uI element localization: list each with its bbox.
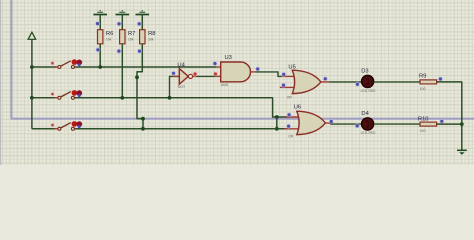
svg-text:U4: U4 <box>177 63 185 69</box>
svg-text:R8: R8 <box>148 31 155 37</box>
svg-text:10k: 10k <box>106 37 112 41</box>
resistor R8 <box>136 10 150 44</box>
node tie-row3 <box>275 127 279 131</box>
wire R6 lower pin <box>99 44 101 67</box>
power terminal +V <box>28 32 36 67</box>
state dot R9 right <box>438 77 443 82</box>
svg-text:R7: R7 <box>128 31 135 37</box>
state dot R6 top <box>95 21 100 26</box>
led D4 <box>361 111 377 135</box>
node bus-row2 <box>30 96 34 100</box>
svg-text:100: 100 <box>420 129 426 133</box>
resistor R7 <box>116 10 130 44</box>
or-gate U6 <box>288 105 325 139</box>
wire row2 right segment <box>74 98 290 117</box>
wire R8 lower pin (jogged) <box>137 44 143 129</box>
wire row1 right segment <box>74 66 216 68</box>
wire R9 to right bus <box>437 82 462 150</box>
or-gate U5 <box>287 64 321 99</box>
node R8 jog <box>141 117 145 121</box>
state dot U4 output <box>193 72 198 77</box>
wire U5 upper stub <box>281 75 298 77</box>
svg-text:D3: D3 <box>361 69 368 75</box>
wire U4 input from row2 <box>170 76 180 97</box>
state dot R6 bottom <box>95 47 100 52</box>
state dot U6 output <box>329 119 334 124</box>
wire U6 to D4 <box>330 123 361 125</box>
svg-text:R9: R9 <box>419 73 426 79</box>
resistor R10 <box>418 116 437 133</box>
wire U6 lower stub <box>284 128 302 130</box>
node R8 mid <box>135 75 139 79</box>
svg-text:OR: OR <box>287 96 293 100</box>
svg-text:R6: R6 <box>106 31 113 37</box>
node bus-row1 <box>30 65 34 69</box>
svg-text:NOT: NOT <box>178 85 185 89</box>
wire U3 upper stub <box>216 66 221 68</box>
state dot U5 upper input <box>281 72 286 77</box>
wire R10 to right bus <box>437 123 462 125</box>
led D3 <box>361 69 377 93</box>
node U4-row2 <box>168 96 172 100</box>
state dot R10 right <box>439 119 444 124</box>
switch SW2 <box>51 90 83 99</box>
state dot D4 anode <box>355 123 360 128</box>
wire U6 upper stub <box>286 116 303 118</box>
svg-text:LED-RED: LED-RED <box>361 89 377 93</box>
wire row2 left segment <box>32 97 57 99</box>
wire D3 to R9 <box>374 81 420 83</box>
wire U5 lower stub <box>280 86 298 88</box>
svg-text:U6: U6 <box>294 105 301 111</box>
node R8-row3 <box>141 127 145 131</box>
switch SW3 <box>51 121 83 130</box>
state dot R8 bottom <box>137 49 142 54</box>
state dot U3 output <box>255 67 260 72</box>
svg-text:OR: OR <box>288 134 294 138</box>
svg-text:100: 100 <box>420 87 426 91</box>
wire U6 output stub <box>325 122 330 124</box>
state dot D3 anode <box>355 82 360 87</box>
wire U3 output to U5 <box>255 72 281 77</box>
wire U3 output stub <box>251 71 256 73</box>
sheet border (lavender) <box>11 0 474 119</box>
state dot U5 lower input <box>281 83 286 88</box>
state dot U3 upper input <box>212 61 217 66</box>
node R7-row2 <box>120 96 124 100</box>
node row2/U6 branch <box>275 115 279 119</box>
state dot R7 top <box>117 21 122 26</box>
svg-text:U5: U5 <box>288 64 295 70</box>
wire left bus <box>31 67 33 129</box>
node bus-R10 <box>460 122 464 126</box>
state dot U3 lower input <box>213 72 218 77</box>
state dot U6 lower input <box>286 124 291 129</box>
svg-text:U3: U3 <box>225 55 232 61</box>
inverter U4 <box>173 63 197 89</box>
node R6-row1 <box>98 65 102 69</box>
wire U4 output to U3 <box>196 75 216 77</box>
state dot R8 top <box>137 21 142 26</box>
state dot U5 output <box>323 76 328 81</box>
svg-text:LED-RED: LED-RED <box>361 131 377 135</box>
svg-text:AND: AND <box>221 83 229 87</box>
wire U3 lower stub <box>216 75 221 77</box>
wire U5 to D3 <box>329 81 361 83</box>
wire row1 left segment <box>32 66 57 68</box>
svg-text:R10: R10 <box>418 116 429 122</box>
ground <box>457 150 467 155</box>
wire row2-row3 tie <box>276 117 278 129</box>
wire U5 output stub <box>321 81 329 83</box>
wire R7 lower pin <box>121 44 123 98</box>
and-gate U3 <box>221 55 251 87</box>
resistor R9 <box>419 73 437 91</box>
wire D4 to R10 <box>374 123 420 125</box>
svg-text:10k: 10k <box>148 37 154 41</box>
wire row3 right segment <box>74 128 288 130</box>
resistor R6 <box>93 10 107 44</box>
svg-text:10k: 10k <box>128 37 134 41</box>
state dot R7 bottom <box>116 49 121 54</box>
state dot U4 input <box>171 71 176 76</box>
svg-text:D4: D4 <box>361 111 369 117</box>
wire row3 left segment <box>32 128 57 130</box>
state dot U6 upper input <box>287 112 292 117</box>
switch SW1 <box>51 59 83 68</box>
